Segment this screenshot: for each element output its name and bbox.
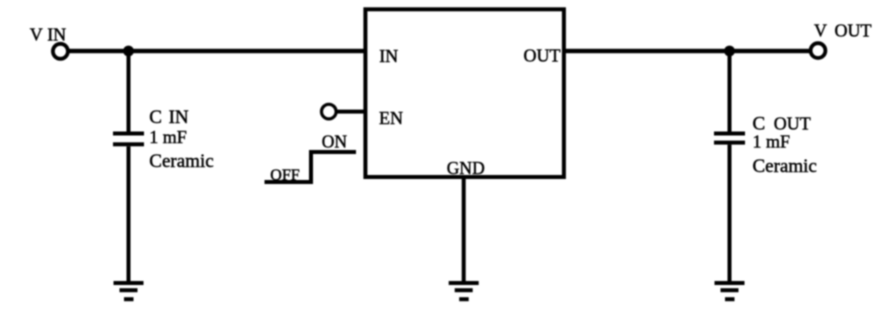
svg-text:OUT: OUT xyxy=(835,20,872,40)
svg-text:Ceramic: Ceramic xyxy=(149,151,213,172)
svg-text:V: V xyxy=(814,20,827,40)
svg-text:1 mF: 1 mF xyxy=(753,132,791,152)
svg-text:IN: IN xyxy=(379,46,398,66)
svg-text:IN: IN xyxy=(169,107,189,128)
svg-text:EN: EN xyxy=(379,108,403,128)
svg-text:C: C xyxy=(149,107,162,128)
svg-text:OFF: OFF xyxy=(270,167,299,184)
svg-text:ON: ON xyxy=(322,132,348,152)
svg-text:Ceramic: Ceramic xyxy=(753,156,817,177)
svg-text:V: V xyxy=(30,25,43,45)
svg-text:IN: IN xyxy=(47,25,66,45)
svg-text:GND: GND xyxy=(447,158,485,178)
svg-text:1 mF: 1 mF xyxy=(149,127,187,147)
svg-text:OUT: OUT xyxy=(774,113,811,133)
svg-text:OUT: OUT xyxy=(524,46,561,66)
